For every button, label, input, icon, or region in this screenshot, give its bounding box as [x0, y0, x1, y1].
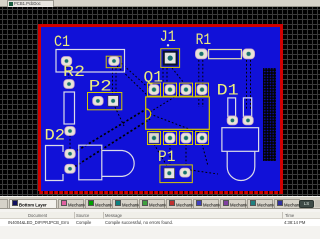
- svg-text:R2: R2: [63, 63, 85, 81]
- svg-text:P1: P1: [158, 148, 176, 166]
- svg-text:J1: J1: [160, 28, 176, 46]
- svg-text:D2: D2: [45, 127, 66, 145]
- svg-text:R1: R1: [196, 31, 212, 49]
- svg-text:C1: C1: [54, 33, 70, 51]
- svg-text:D1: D1: [217, 82, 239, 100]
